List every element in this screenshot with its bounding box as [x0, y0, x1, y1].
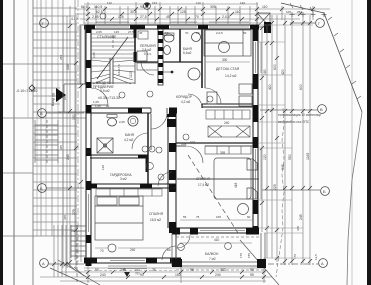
- svg-text:1115: 1115: [129, 71, 133, 78]
- svg-text:75: 75: [196, 215, 200, 219]
- hall tag circle 2: [147, 91, 153, 97]
- right side tie lines: [259, 25, 313, 258]
- svg-text:95: 95: [250, 273, 254, 277]
- svg-text:163: 163: [152, 1, 157, 5]
- walkway diagonals bottom-left: [50, 260, 100, 285]
- svg-text:±0.30=713.30: ±0.30=713.30: [98, 96, 120, 100]
- bedroom right bottom wall: [172, 228, 259, 249]
- svg-text:20: 20: [196, 31, 200, 35]
- axis circle right A: [319, 259, 328, 268]
- left margin line: [13, 0, 15, 285]
- axis circle left A: [40, 259, 49, 268]
- svg-text:А: А: [123, 267, 126, 272]
- wc toilet: [164, 34, 174, 42]
- center wall V6: [167, 108, 176, 264]
- axis circle left B: [38, 184, 47, 193]
- top extra small texts: [107, 1, 302, 14]
- svg-text:355: 355: [220, 151, 226, 155]
- insulation wavy line: [276, 108, 284, 277]
- laundry door arc: [141, 62, 154, 75]
- corridor door arc into bedroom left: [158, 172, 172, 186]
- bedroom left bed: [95, 196, 143, 240]
- bath sink: [128, 116, 138, 126]
- left chain texts: [59, 55, 67, 220]
- svg-text:245: 245: [66, 154, 70, 160]
- svg-text:60: 60: [247, 215, 251, 219]
- svg-text:155: 155: [247, 253, 251, 258]
- bedroom left circle: [108, 244, 116, 252]
- top dimension ticks: [86, 7, 315, 21]
- svg-text:3,9 м2: 3,9 м2: [100, 89, 110, 93]
- svg-text:286: 286: [59, 55, 63, 60]
- window sill lines top: [96, 21, 249, 23]
- bottom dimension chains: [40, 258, 272, 283]
- garderobna top wall: [90, 155, 148, 159]
- wc sink: [164, 46, 171, 55]
- svg-text:А: А: [321, 261, 324, 266]
- svg-text:4,19: 4,19: [71, 17, 78, 21]
- bottom dimension texts: [95, 268, 254, 277]
- svg-text:550: 550: [288, 154, 292, 160]
- svg-text:27,5: 27,5: [128, 30, 134, 34]
- children table circle: [219, 42, 230, 53]
- left dimension chains: [63, 16, 81, 268]
- entrance hall label: [93, 81, 114, 93]
- svg-text:125: 125: [118, 15, 124, 19]
- corridor door tags: [149, 146, 155, 152]
- small circle on top chain: [100, 13, 106, 19]
- svg-text:4,2 м2: 4,2 м2: [124, 138, 134, 142]
- porch slab outside left wall: [80, 25, 85, 84]
- svg-text:45: 45: [139, 31, 143, 35]
- svg-text:240: 240: [224, 121, 230, 125]
- outer wall right: [253, 25, 259, 233]
- svg-text:110: 110: [262, 5, 268, 9]
- outer wall bottom left part: [84, 258, 181, 276]
- axis line B row stub left: [47, 187, 84, 189]
- axis circle left V: [38, 109, 47, 118]
- svg-text:305: 305: [210, 5, 216, 9]
- bedroom right dashed roof line: [188, 155, 238, 233]
- svg-text:345: 345: [296, 226, 300, 231]
- svg-text:110: 110: [107, 1, 112, 5]
- svg-text:30,5: 30,5: [130, 10, 137, 14]
- right dimension chains: [262, 15, 310, 265]
- svg-text:345: 345: [281, 164, 285, 170]
- svg-text:345: 345: [63, 215, 67, 220]
- el board box: [137, 63, 158, 70]
- bedroom right bed: [214, 158, 257, 199]
- svg-text:45: 45: [166, 15, 170, 19]
- svg-text:1,05: 1,05: [95, 104, 101, 108]
- laundry-wc bottom wall: [135, 61, 158, 63]
- axis circle right V: [318, 105, 327, 114]
- svg-text:12,5: 12,5: [314, 254, 318, 260]
- axis lines right side: [260, 23, 320, 264]
- svg-text:410: 410: [214, 238, 220, 242]
- svg-text:83: 83: [243, 31, 247, 35]
- svg-text:150: 150: [175, 273, 181, 277]
- svg-text:345: 345: [66, 64, 70, 70]
- hatched insulated wall: [158, 29, 163, 85]
- neighbour terrain grid: [37, 0, 75, 260]
- outer wall left: [86, 25, 92, 266]
- axis circle right G: [316, 19, 325, 28]
- axis circle right B: [321, 187, 330, 196]
- bath-corridor wall: [148, 113, 151, 184]
- svg-text:А: А: [42, 261, 45, 266]
- svg-text:420: 420: [268, 84, 272, 90]
- washing machine: [137, 51, 147, 61]
- svg-text:165: 165: [216, 215, 221, 219]
- svg-text:90: 90: [106, 104, 110, 108]
- outer wall top: [84, 25, 259, 30]
- bath top sink: [192, 33, 201, 42]
- svg-text:топлоизолация 10 см неопор: топлоизолация 10 см неопор: [278, 113, 321, 117]
- svg-text:+: +: [166, 182, 168, 186]
- section mark A bottom: [123, 267, 130, 277]
- axis line A row stubs: [49, 263, 84, 265]
- children desk: [207, 84, 252, 106]
- svg-text:105: 105: [63, 95, 67, 100]
- svg-text:110,5: 110,5: [94, 5, 102, 9]
- second margin line: [32, 0, 34, 285]
- svg-text:7 м2: 7 м2: [209, 257, 216, 261]
- svg-text:170: 170: [239, 253, 243, 258]
- bath top tub circle: [188, 68, 200, 80]
- children's room bottom wall: [202, 104, 253, 107]
- svg-text:110: 110: [235, 10, 241, 14]
- svg-text:793: 793: [135, 272, 140, 276]
- bedroom right door arc: [186, 146, 203, 163]
- svg-text:16,5 м2: 16,5 м2: [150, 218, 161, 222]
- svg-text:2,05: 2,05: [92, 15, 99, 19]
- bottom right rotated texts: [293, 226, 318, 260]
- bath-children wall: [202, 29, 205, 108]
- exterior stairs bottom-left: [71, 225, 86, 282]
- svg-text:240: 240: [100, 273, 106, 277]
- svg-text:225: 225: [273, 184, 277, 190]
- corridor door arc into bath: [132, 133, 148, 149]
- corridor door arc to children: [188, 94, 202, 108]
- stair wall to hall: [134, 62, 136, 84]
- entrance door arc: [91, 88, 108, 105]
- bedroom right top wall: [176, 143, 253, 146]
- svg-text:345: 345: [59, 145, 63, 150]
- stair-laundry wall: [134, 29, 136, 62]
- right scan edge black bar: [367, 0, 371, 285]
- svg-text:110: 110: [196, 1, 201, 5]
- axis line V row stub left: [47, 112, 84, 114]
- svg-text:150: 150: [72, 114, 76, 120]
- svg-text:105: 105: [286, 10, 291, 14]
- svg-text:-0.10=713.80: -0.10=713.80: [16, 89, 37, 93]
- svg-text:4,2 м2: 4,2 м2: [181, 100, 191, 104]
- svg-text:Б: Б: [40, 186, 43, 191]
- door opening hall to corridor: [151, 107, 169, 129]
- right faint paper line: [351, 0, 353, 285]
- garderobna right wall: [146, 155, 148, 172]
- bath toilet: [108, 118, 117, 126]
- boundary diagonal top-right: [281, 3, 324, 13]
- garderobna door tag: [147, 163, 154, 170]
- left chains lower extensions: [54, 225, 66, 277]
- entrance arrow: [56, 88, 66, 102]
- right dimension ticks: [260, 21, 312, 263]
- corridor extra tags: [142, 146, 148, 152]
- left dimension texts: [66, 64, 76, 215]
- children bed: [204, 30, 251, 56]
- svg-text:2-0,5: 2-0,5: [222, 15, 230, 19]
- garderobna bottom wall: [86, 184, 176, 189]
- bath bottom wall: [86, 151, 90, 153]
- window sill right: [260, 42, 262, 199]
- svg-text:10: 10: [165, 31, 169, 35]
- svg-text:70: 70: [185, 31, 189, 35]
- bottom dimension ticks: [86, 270, 266, 279]
- boundary wavy right lower: [347, 112, 362, 285]
- svg-text:240: 240: [130, 248, 136, 252]
- balcony outline: [172, 233, 265, 270]
- section mark A top: [144, 3, 151, 10]
- children door arc: [205, 88, 221, 104]
- svg-text:Б: Б: [323, 189, 326, 194]
- terrain long horizontals: [3, 64, 86, 236]
- svg-text:5,1м2: 5,1м2: [183, 51, 192, 55]
- porch landing lines: [64, 83, 86, 85]
- left scan edge black bar: [0, 0, 3, 285]
- svg-text:600: 600: [273, 64, 277, 70]
- svg-text:254: 254: [297, 10, 302, 14]
- svg-text:140: 140: [240, 1, 245, 5]
- fence ticks on top-right boundary: [290, 3, 361, 99]
- svg-text:3 м2: 3 м2: [120, 177, 127, 181]
- svg-text:90: 90: [140, 273, 144, 277]
- boundary diagonal right: [324, 13, 362, 112]
- stair edge line: [91, 82, 135, 84]
- svg-text:418: 418: [234, 182, 238, 188]
- right dimension texts: [263, 64, 310, 220]
- svg-text:90: 90: [95, 268, 99, 272]
- entrance exterior steps: [35, 120, 58, 163]
- svg-text:120: 120: [263, 154, 267, 160]
- svg-text:1165: 1165: [306, 153, 310, 160]
- left dimension ticks: [68, 24, 83, 264]
- corner column block: [264, 22, 271, 33]
- level diamond: [29, 85, 35, 91]
- svg-text:2,05: 2,05: [96, 30, 102, 34]
- axis circle left G: [40, 19, 49, 28]
- svg-text:600: 600: [299, 84, 303, 90]
- hall door tag: [119, 92, 125, 98]
- svg-text:В: В: [320, 107, 323, 112]
- bath top door dot: [171, 71, 174, 74]
- bath shower: [97, 138, 113, 153]
- middle wall H4: [86, 108, 177, 114]
- svg-text:300: 300: [222, 58, 228, 62]
- svg-text:103: 103: [181, 142, 187, 146]
- svg-text:БАЛКОН: БАЛКОН: [205, 252, 219, 256]
- svg-text:102: 102: [190, 140, 195, 144]
- svg-text:55: 55: [183, 215, 187, 219]
- svg-text:128: 128: [101, 165, 105, 170]
- svg-text:180: 180: [263, 69, 267, 75]
- laundry top cabinet: [138, 31, 148, 39]
- children room label: [216, 67, 240, 78]
- corridor label: [176, 95, 193, 104]
- svg-text:КОРИДОР: КОРИДОР: [176, 95, 193, 99]
- svg-text:14,2 м2: 14,2 м2: [225, 74, 237, 78]
- bedroom right cabinet row: [205, 146, 251, 154]
- svg-text:ДЕТСКА СТАЯ: ДЕТСКА СТАЯ: [216, 67, 240, 71]
- svg-text:240: 240: [215, 273, 221, 277]
- svg-text:70: 70: [195, 15, 199, 19]
- faint margin vertical x28: [27, 0, 29, 118]
- boundary dash-dot axis: [77, 0, 79, 262]
- boundary diagonal bottom-right: [240, 240, 279, 285]
- plus ticks row top-right: [290, 12, 327, 17]
- svg-text:0 ч.ч.: 0 ч.ч.: [144, 52, 152, 56]
- svg-text:125: 125: [180, 10, 186, 14]
- svg-text:2-0,5: 2-0,5: [216, 31, 223, 35]
- corner X detail: [257, 13, 270, 27]
- dim texts under top wall: [96, 30, 247, 35]
- balcony door arc bedroom left: [162, 246, 176, 260]
- bedroom left wardrobe row: [96, 189, 162, 196]
- svg-text:СПАЛНЯ: СПАЛНЯ: [149, 212, 164, 216]
- svg-text:Вход (у): Вход (у): [51, 93, 55, 106]
- svg-text:125: 125: [114, 30, 119, 34]
- svg-text:БАНЯ: БАНЯ: [125, 133, 135, 137]
- balcony corner columns: [257, 259, 266, 268]
- svg-text:279: 279: [72, 209, 76, 215]
- svg-text:СТЪЛБИЩЕ: СТЪЛБИЩЕ: [97, 35, 117, 39]
- bedroom right chair circle: [238, 204, 249, 215]
- svg-text:16x17,5: 16x17,5: [117, 64, 121, 75]
- top dimension chains: [70, 2, 330, 26]
- svg-text:В: В: [40, 111, 43, 116]
- line crossing bedroom: [177, 178, 259, 180]
- svg-text:70: 70: [100, 249, 104, 253]
- svg-text:2,05: 2,05: [92, 52, 96, 58]
- svg-text:2,05: 2,05: [119, 120, 125, 124]
- svg-text:420: 420: [281, 69, 285, 75]
- balcony tag: [225, 243, 232, 250]
- svg-text:245: 245: [299, 214, 303, 220]
- svg-text:62,5: 62,5: [81, 5, 88, 9]
- svg-text:35: 35: [152, 268, 156, 272]
- wc-bath wall: [179, 29, 181, 62]
- stair arrow: [97, 37, 128, 79]
- top dimension texts: [92, 5, 268, 19]
- svg-text:27,5: 27,5: [140, 15, 147, 19]
